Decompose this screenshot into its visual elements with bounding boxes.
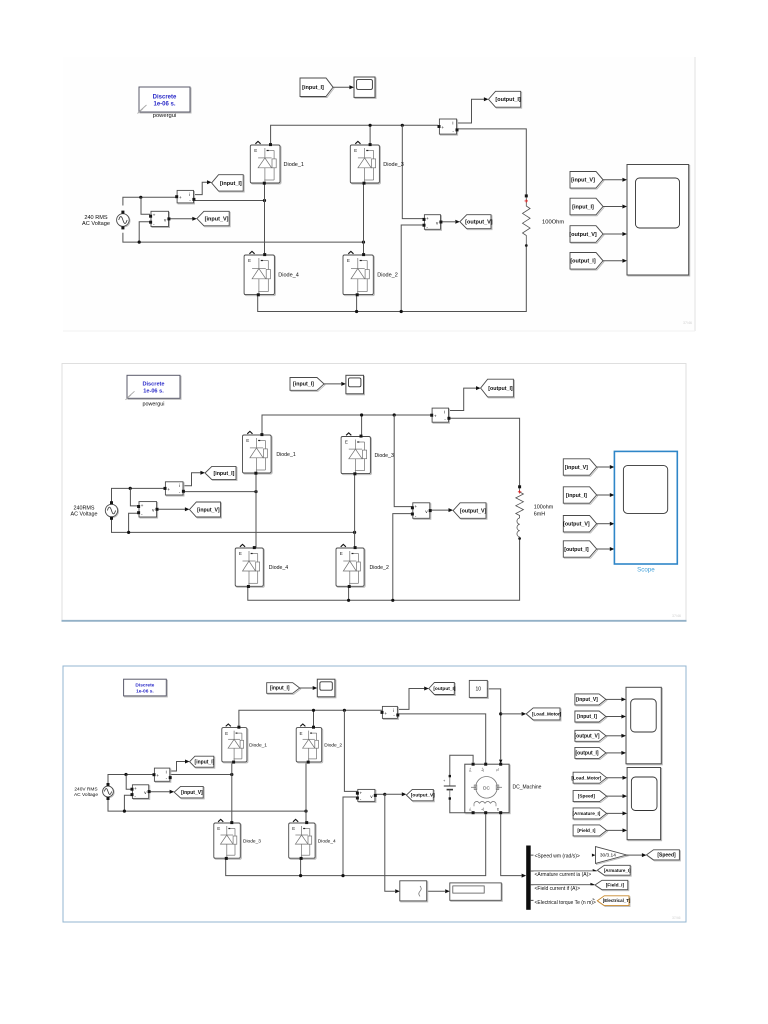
goto tag [input_V] P1 <box>197 211 230 227</box>
current measurement output P2 <box>430 408 450 423</box>
DC machine block DC_Machine P3 <box>465 763 542 815</box>
svg-text:powergui: powergui <box>153 113 177 119</box>
goto tag [output_V] P1 <box>460 215 493 230</box>
svg-text:Diode_3: Diode_3 <box>243 838 261 844</box>
svg-text:[Field_I]: [Field_I] <box>577 828 595 833</box>
diode block Diode_2 P3 <box>296 724 342 764</box>
wire output voltage minus tap P2 <box>393 514 413 601</box>
node AC bottom tap P1 <box>138 241 141 244</box>
svg-text:Diode_2: Diode_2 <box>324 742 342 748</box>
series RL load 100ohm 6mH P2 <box>516 485 524 518</box>
diode block Diode_2 P2 <box>336 544 389 588</box>
node phase B junction P1 <box>362 241 365 244</box>
svg-text:[output_I]: [output_I] <box>433 686 456 692</box>
svg-text:E: E <box>217 826 220 831</box>
svg-text:E: E <box>239 551 242 556</box>
wire phase B bridge vertical P1 <box>363 183 365 255</box>
from tag [output_V] scope feed P2 <box>563 516 597 533</box>
wire current meas signal P3 <box>170 762 185 772</box>
svg-text:+: + <box>179 196 182 201</box>
wire bus torque signal P3 <box>531 899 593 901</box>
goto tag [output_I] P3 <box>429 683 456 696</box>
AC source 240 RMS P1 <box>82 211 130 230</box>
svg-text:30/3.14: 30/3.14 <box>600 853 616 859</box>
node phase B junction P2 <box>353 531 356 534</box>
wire bridge top rail P3 <box>239 710 383 727</box>
wire voltage meas plus tap P2 <box>130 488 139 506</box>
svg-text:[Field_I]: [Field_I] <box>606 883 625 889</box>
wire phase B bridge vertical P2 <box>354 473 356 548</box>
from tag [output_I] scope1 feed P3 <box>575 747 607 759</box>
wire current meas2 signal P1 <box>456 99 484 123</box>
wire bus field signal P3 <box>531 884 591 886</box>
wire current meas2 out to A+ P3 <box>398 714 486 764</box>
svg-text:[input_V]: [input_V] <box>576 697 598 703</box>
svg-text:E: E <box>347 258 350 263</box>
from tag [output_I] scope feed P1 <box>570 253 604 271</box>
constant block 10 P3 <box>469 680 488 698</box>
from tag [Field_I] scope2 feed P3 <box>573 825 608 837</box>
svg-text:i: i <box>166 770 167 776</box>
wire voltage meas signal P1 <box>169 218 193 220</box>
wire output voltage plus tap P3 <box>344 710 357 791</box>
voltage measurement input P2 <box>137 502 158 518</box>
scope block P2 top <box>346 375 365 395</box>
svg-text:240 RMS: 240 RMS <box>84 215 108 221</box>
wire from [input_I] to scope P1 <box>333 86 350 88</box>
diode block Diode_2 P1 <box>343 251 398 296</box>
signal label Field current P3 <box>534 885 602 892</box>
goto tag [input_I] P2 <box>205 466 237 480</box>
current measurement output P1 <box>438 119 459 135</box>
wire D4 bottom connect P3 <box>300 858 302 875</box>
wire [Speed] to scope2 P3 <box>607 795 623 797</box>
wire voltage meas minus tap P1 <box>139 222 150 242</box>
wire D3 top connect P2 <box>361 415 363 435</box>
svg-text:[input_I]: [input_I] <box>270 686 290 692</box>
diode block Diode_4 P2 <box>235 544 288 588</box>
svg-text:[input_I]: [input_I] <box>220 181 242 187</box>
svg-text:[input_I]: [input_I] <box>293 382 314 388</box>
from tag [input_I] P3 top <box>267 683 301 695</box>
diode block Diode_1 P2 <box>243 431 296 474</box>
wire [output_I] to scope1 P3 <box>606 752 622 754</box>
mean block icon P3 <box>419 886 421 896</box>
node output minus tap P1 <box>400 310 403 313</box>
svg-text:<Electrical torque Te (n m)>: <Electrical torque Te (n m)> <box>535 900 596 906</box>
signal label Electrical torque P3 <box>534 900 616 907</box>
diode block Diode_4 P1 <box>244 251 299 296</box>
from tag [input_I] scope feed P1 <box>570 198 604 216</box>
wire AC bottom rail P2 <box>112 519 355 533</box>
wire D2 bottom connect P2 <box>348 586 350 600</box>
svg-text:Diode_1: Diode_1 <box>249 742 267 748</box>
svg-text:100Ohm: 100Ohm <box>542 220 564 226</box>
signal label Armature current P3 <box>534 871 609 878</box>
node AC bottom tap P3 <box>123 810 126 813</box>
svg-text:F+: F+ <box>469 768 473 772</box>
from tag [Armature_I] scope2 feed P3 <box>572 808 607 820</box>
svg-text:6mH: 6mH <box>534 512 545 518</box>
wire mean to display P3 <box>427 890 445 892</box>
svg-text:1e-06 s.: 1e-06 s. <box>143 389 164 395</box>
svg-text:[Electrical_T]: [Electrical_T] <box>603 898 631 903</box>
wire [Load_Motor] to scope2 P3 <box>607 777 623 779</box>
goto tag [Armature_I] P3 <box>597 865 631 876</box>
goto tag [input_I] P1 <box>212 175 245 192</box>
voltage measurement output P1 <box>423 215 443 231</box>
svg-text:[Armature_I]: [Armature_I] <box>604 868 631 873</box>
display block P3 <box>450 883 503 901</box>
svg-text:37/46: 37/46 <box>672 916 681 920</box>
svg-text:[Load_Motor]: [Load_Motor] <box>571 775 601 780</box>
svg-text:DC_Machine: DC_Machine <box>513 785 542 791</box>
goto tag [input_V] P2 <box>190 502 222 518</box>
DC field source battery P3 <box>443 775 456 800</box>
svg-text:[output_V]: [output_V] <box>575 734 600 740</box>
node phase B junction P3 <box>304 810 307 813</box>
wire output V down to mean block P3 <box>385 794 395 891</box>
svg-text:+: + <box>441 126 444 131</box>
goto tag [output_V] P2 <box>453 503 487 520</box>
wire [output_I] to scope P1 <box>603 260 622 262</box>
from tag [Speed] scope2 feed P3 <box>573 791 608 803</box>
voltage measurement output P2 <box>411 503 432 520</box>
wire AC top to current meas P1 <box>123 197 176 205</box>
goto tag [Field_I] P3 <box>595 880 629 890</box>
node output minus tap P3 <box>341 874 344 877</box>
svg-text:F-: F- <box>469 807 473 810</box>
current measurement input P2 <box>164 482 185 496</box>
node AC top tap P1 <box>139 196 142 199</box>
svg-text:[output_I]: [output_I] <box>495 97 521 103</box>
wire [Field_I] to scope2 P3 <box>607 829 623 831</box>
wire output voltage plus tap P2 <box>394 415 412 507</box>
gain block 30/3.14 P3 <box>596 847 628 865</box>
node D4 bottom rail P3 <box>299 874 302 877</box>
diode block Diode_3 P3 <box>214 819 261 860</box>
svg-text:[input_V]: [input_V] <box>565 465 588 471</box>
goto tag [input_I] P3 <box>190 756 215 768</box>
wire output V to goto P3 <box>385 793 402 795</box>
svg-text:Diode_3: Diode_3 <box>383 162 404 168</box>
svg-text:E: E <box>246 438 249 443</box>
svg-text:+: + <box>167 488 170 493</box>
node output plus tap P1 <box>401 124 404 127</box>
wire D3 top connect P1 <box>369 125 371 145</box>
svg-text:+: + <box>426 217 429 222</box>
svg-text:[output_V]: [output_V] <box>563 522 590 528</box>
svg-text:+: + <box>153 214 156 219</box>
wire output voltage minus tap P3 <box>343 797 358 876</box>
wire current meas out to bridge P3 <box>170 774 232 776</box>
svg-text:[input_I]: [input_I] <box>213 471 234 477</box>
resistor 100Ohm P1 <box>523 194 531 247</box>
svg-text:[output_I]: [output_I] <box>488 386 513 392</box>
svg-text:AC Voltage: AC Voltage <box>82 221 110 227</box>
wire AC top to current meas P3 <box>108 775 155 785</box>
wire current meas out to bridge P1 <box>194 200 265 202</box>
wire machine m to bus selector P3 <box>501 814 522 876</box>
svg-text:+: + <box>156 774 159 779</box>
current measurement output P3 <box>381 706 400 719</box>
wire current meas out to bridge P2 <box>183 491 256 493</box>
wire to Load_Motor goto P3 <box>501 713 522 715</box>
from tag [output_V] scope1 feed P3 <box>575 730 607 742</box>
wire gain to Speed goto P3 <box>627 854 642 856</box>
wire bridge top rail P2 <box>262 415 433 435</box>
panel 2 frame (rectifier with RL load screenshot) <box>62 364 687 621</box>
wire [input_I] to scope P1 <box>603 206 622 208</box>
svg-text:[output_V]: [output_V] <box>569 232 597 238</box>
wire AC bottom rail P3 <box>108 799 306 812</box>
wire voltage meas minus tap P2 <box>129 513 140 532</box>
wire output voltage signal P2 <box>430 509 449 511</box>
svg-text:[Load_Motor]: [Load_Motor] <box>532 712 562 717</box>
svg-text:+: + <box>434 415 437 420</box>
svg-text:E: E <box>254 148 257 153</box>
node output plus tap P3 <box>343 709 346 712</box>
goto tag [output_I] P1 <box>489 91 522 108</box>
from tag [input_I] scope feed P2 <box>563 487 597 504</box>
wire from [input_I] to scope P2 <box>324 383 341 385</box>
svg-text:E: E <box>340 551 343 556</box>
svg-text:powergui: powergui <box>143 401 165 407</box>
scope block P1 top <box>354 77 376 98</box>
bus selector bar P3 <box>526 846 531 910</box>
goto tag [Load_Motor] P3 <box>526 708 562 721</box>
diode block Diode_3 P1 <box>350 141 404 184</box>
svg-text:[output_I]: [output_I] <box>564 547 589 553</box>
svg-text:Diode_2: Diode_2 <box>377 273 398 279</box>
wire [output_V] to scope P1 <box>603 233 622 235</box>
node output minus tap P2 <box>391 599 394 602</box>
svg-text:AC Voltage: AC Voltage <box>71 511 98 517</box>
scope block P3 upper (4 inputs) <box>626 687 662 765</box>
svg-text:E: E <box>300 731 303 736</box>
node output plus tap P2 <box>393 413 396 416</box>
diode block Diode_1 P1 <box>250 141 304 184</box>
svg-text:i: i <box>179 483 180 489</box>
wire constant 10 to TL and goto P3 <box>488 689 501 760</box>
node phase A junction P1 <box>263 199 266 202</box>
svg-text:[input_I]: [input_I] <box>572 204 594 210</box>
goto tag [output_I] P2 <box>481 379 515 398</box>
svg-text:+: + <box>134 787 137 792</box>
svg-text:<Armature current ia (A)>: <Armature current ia (A)> <box>535 872 592 878</box>
svg-text:[Armature_I]: [Armature_I] <box>572 811 600 816</box>
scope block P3 top <box>317 679 336 698</box>
diode block Diode_3 P2 <box>341 433 394 475</box>
wire bus speed signal P3 <box>531 854 591 856</box>
wire current meas2 out to load P2 <box>449 418 520 486</box>
wire [input_V] to scope P1 <box>603 179 622 181</box>
wire voltage meas plus tap P1 <box>141 197 150 214</box>
svg-text:+: + <box>359 792 362 797</box>
node AC bottom tap P2 <box>127 531 130 534</box>
signal label Speed wm P3 <box>534 853 592 860</box>
svg-text:37/46: 37/46 <box>672 614 681 618</box>
wire AC bottom rail P1 <box>123 233 364 242</box>
mean value block P3 <box>400 881 428 902</box>
svg-text:E: E <box>248 258 251 263</box>
wire field source bottom P3 <box>450 799 471 813</box>
wire [output_V] to scope P2 <box>597 523 610 525</box>
goto tag [input_V] P3 <box>174 786 204 799</box>
powergui block P2 <box>126 375 182 407</box>
svg-text:[input_V]: [input_V] <box>205 216 229 222</box>
node phase A junction P3 <box>230 773 233 776</box>
svg-text:m: m <box>496 808 500 811</box>
svg-text:A+: A+ <box>481 767 485 771</box>
panel 1 frame (single-phase rectifier with R load screenshot) <box>63 57 695 331</box>
current measurement input P3 <box>153 768 172 782</box>
wire output voltage plus tap P1 <box>402 125 423 218</box>
wire voltage meas plus tap P3 <box>126 775 133 790</box>
panel 3 frame (rectifier feeding DC machine screenshot) <box>63 666 686 922</box>
from tag [output_I] scope feed P2 <box>563 541 597 558</box>
from tag [input_I] P1 top <box>300 78 334 98</box>
wire voltage meas minus tap P3 <box>124 795 133 811</box>
node D2 bottom rail P1 <box>355 310 358 313</box>
AC source 240V RMS P3 <box>74 783 114 800</box>
wire [input_I] to scope1 P3 <box>606 716 622 718</box>
svg-text:E: E <box>354 148 357 153</box>
wire [input_I] to scope P2 <box>597 494 610 496</box>
svg-text:i: i <box>393 708 394 714</box>
goto tag [output_V] P3 <box>406 789 435 801</box>
from tag [input_I] P2 top <box>290 378 325 392</box>
svg-text:[output_V]: [output_V] <box>411 793 435 799</box>
node phase A junction P2 <box>254 490 257 493</box>
svg-text:i: i <box>452 120 453 126</box>
wire output voltage signal P1 <box>441 221 455 223</box>
wire [Armature_I] to scope2 P3 <box>607 812 623 814</box>
scope block P2 (selected) <box>614 451 677 573</box>
svg-text:E: E <box>225 731 228 736</box>
svg-text:[input_V]: [input_V] <box>571 178 595 184</box>
svg-text:[input_I]: [input_I] <box>302 85 324 91</box>
svg-text:Scope: Scope <box>637 567 655 574</box>
svg-text:[input_V]: [input_V] <box>197 507 220 513</box>
svg-text:Diode_2: Diode_2 <box>370 565 389 571</box>
wire from [input_I] to scope P3 <box>300 687 313 689</box>
svg-text:[input_I]: [input_I] <box>195 759 215 765</box>
svg-text:[input_I]: [input_I] <box>577 714 597 720</box>
svg-text:[Speed]: [Speed] <box>578 794 596 799</box>
svg-text:+: + <box>141 504 144 509</box>
svg-text:Diode_3: Diode_3 <box>375 453 394 459</box>
svg-text:E: E <box>292 826 295 831</box>
from tag [input_V] scope1 feed P3 <box>575 694 607 706</box>
node D3 top rail P2 <box>360 413 363 416</box>
goto tag [Electrical_T] P3 (highlighted) <box>597 896 631 907</box>
current measurement input P1 <box>175 190 195 204</box>
wire phase A bridge vertical P2 <box>255 473 257 548</box>
wire D2 bottom connect P1 <box>356 295 358 312</box>
svg-text:Discrete: Discrete <box>135 682 154 688</box>
wire bottom rail P1 <box>258 245 527 312</box>
wire AC top to current meas P2 <box>112 488 166 504</box>
from tag [input_V] scope feed P1 <box>570 172 604 190</box>
svg-text:A-: A- <box>481 807 485 810</box>
powergui block P1 <box>138 87 192 119</box>
node D2 bottom rail P2 <box>347 599 350 602</box>
svg-text:Diode_4: Diode_4 <box>278 273 299 279</box>
svg-text:E: E <box>345 440 348 445</box>
from tag [input_I] scope1 feed P3 <box>575 711 607 723</box>
node AC top tap P3 <box>124 773 127 776</box>
svg-text:Diode_4: Diode_4 <box>269 565 288 571</box>
svg-text:1e-06 s.: 1e-06 s. <box>153 102 175 108</box>
diode block Diode_1 P3 <box>222 724 268 764</box>
inductor part of RL load P2 <box>517 518 521 540</box>
svg-text:[output_I]: [output_I] <box>570 259 596 265</box>
node D3 top rail P1 <box>369 124 372 127</box>
voltage measurement input P1 <box>149 211 170 227</box>
wire D2 top connect P3 <box>313 710 315 727</box>
node output V branch P3 <box>383 793 386 796</box>
wire voltage meas signal P3 <box>149 791 170 793</box>
voltage measurement input P3 <box>131 785 151 800</box>
svg-text:+: + <box>414 505 417 510</box>
svg-text:TL: TL <box>496 768 500 772</box>
svg-text:i: i <box>444 410 445 416</box>
svg-text:[Speed]: [Speed] <box>657 853 676 859</box>
wire [output_I] to scope P2 <box>597 548 610 550</box>
from tag [input_V] scope feed P2 <box>563 459 597 476</box>
wire phase B bridge vertical P3 <box>305 762 307 823</box>
node D2 top rail P3 <box>312 709 315 712</box>
svg-text:AC Voltage: AC Voltage <box>74 792 98 798</box>
scope block P3 lower (4 inputs) <box>627 768 662 841</box>
node TL branch P3 <box>499 712 502 715</box>
wire current meas2 signal P2 <box>449 388 477 410</box>
wire [output_V] to scope1 P3 <box>606 735 622 737</box>
goto tag [Speed] P3 <box>647 850 681 861</box>
svg-text:Discrete: Discrete <box>142 382 164 388</box>
AC source 240RMS P2 <box>71 501 119 520</box>
wire current meas2 out to resistor P1 <box>457 129 526 196</box>
svg-text:<Speed wm (rad/s)>: <Speed wm (rad/s)> <box>535 853 580 859</box>
from tag [Load_Motor] scope2 feed P3 <box>571 772 607 784</box>
voltage measurement output P3 <box>356 789 377 802</box>
svg-text:100ohm: 100ohm <box>534 505 554 511</box>
wire bottom rail P2 <box>248 539 520 600</box>
svg-text:Diode_4: Diode_4 <box>318 838 336 844</box>
svg-text:DC: DC <box>483 785 490 790</box>
svg-text:<Field current if (A)>: <Field current if (A)> <box>535 886 581 892</box>
svg-text:Discrete: Discrete <box>153 94 177 100</box>
svg-text:37/46: 37/46 <box>683 321 692 325</box>
wire current meas2 signal P3 <box>398 689 425 710</box>
from tag [output_V] scope feed P1 <box>569 226 604 244</box>
powergui block P3 <box>124 679 168 697</box>
svg-text:240V RMS: 240V RMS <box>74 787 97 793</box>
wire field source top P3 <box>450 755 473 776</box>
wire current meas signal P1 <box>194 182 208 194</box>
wire output voltage signal P3 <box>375 793 385 795</box>
node AC top tap P2 <box>129 487 132 490</box>
wire phase A bridge vertical P3 <box>231 762 233 823</box>
scope block P1 (4 inputs) <box>627 165 690 277</box>
svg-text:10: 10 <box>476 687 482 693</box>
wire voltage meas signal P2 <box>157 508 185 510</box>
svg-text:[input_V]: [input_V] <box>181 790 203 796</box>
wire [input_V] to scope1 P3 <box>606 698 622 700</box>
svg-text:1e-06 s.: 1e-06 s. <box>136 689 154 695</box>
wire bottom rail P3 <box>226 814 486 876</box>
